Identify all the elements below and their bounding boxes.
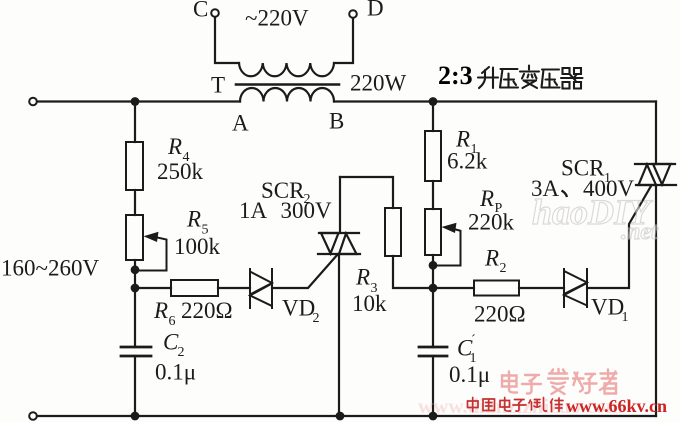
svg-text:160~260V: 160~260V bbox=[1, 256, 99, 281]
svg-text:10k: 10k bbox=[352, 291, 387, 316]
svg-text:R: R bbox=[167, 134, 182, 159]
transformer T core bbox=[236, 83, 339, 86]
svg-text:300V: 300V bbox=[281, 198, 333, 223]
svg-text:~220V: ~220V bbox=[245, 6, 309, 31]
resistor R3 bbox=[385, 208, 401, 256]
diac VD2 bbox=[250, 269, 272, 308]
svg-text:220W: 220W bbox=[350, 70, 407, 95]
thyristor SCR2 bbox=[318, 233, 360, 254]
wire R6-VD2 lead bbox=[218, 287, 250, 289]
CJK shengyabianyaqi text 升压变压器 bbox=[478, 66, 583, 89]
thyristor SCR1 bbox=[635, 164, 676, 185]
svg-text:2:3: 2:3 bbox=[438, 61, 473, 90]
svg-text:C: C bbox=[193, 0, 208, 22]
wire D lead to primary bbox=[334, 18, 353, 63]
node R5 wiper junction bbox=[131, 265, 140, 274]
resistor R5 body bbox=[126, 215, 143, 260]
transformer T primary winding bbox=[239, 63, 334, 76]
node RP wiper junction bbox=[429, 261, 438, 270]
wire R3 top link bbox=[340, 177, 393, 208]
svg-text:R: R bbox=[186, 207, 201, 232]
svg-text:R: R bbox=[484, 245, 499, 270]
svg-text:0.1μ: 0.1μ bbox=[155, 359, 196, 384]
wire R2 left lead bbox=[433, 287, 474, 289]
svg-text:100k: 100k bbox=[174, 234, 221, 259]
wire R5 bottom lead bbox=[134, 260, 136, 288]
wire R4 top lead bbox=[134, 102, 136, 143]
node left gate row junction bbox=[131, 284, 140, 293]
wire VD2 to SCR2 gate bbox=[272, 254, 338, 288]
wire R2-VD1 lead bbox=[519, 287, 564, 289]
svg-text:6.2k: 6.2k bbox=[447, 149, 488, 174]
svg-text:´: ´ bbox=[471, 333, 476, 348]
wire right branch vertical lower bbox=[655, 185, 657, 416]
svg-text:250k: 250k bbox=[157, 159, 204, 184]
watermark CJK pink dianzi aihaozhe 电子爱好者 bbox=[502, 369, 617, 394]
resistor R4 bbox=[126, 142, 143, 190]
svg-text:2: 2 bbox=[500, 261, 507, 276]
diac VD1 bbox=[564, 269, 587, 307]
watermark haoDIY grey bbox=[532, 192, 659, 245]
resistor R1 bbox=[425, 131, 441, 181]
svg-text:D: D bbox=[367, 0, 384, 21]
svg-text:A: A bbox=[232, 110, 249, 135]
wire right branch vertical upper bbox=[655, 102, 657, 165]
wire R4-R5 lead bbox=[134, 190, 136, 215]
resistor R2 bbox=[474, 281, 519, 296]
potentiometer RP body bbox=[425, 209, 441, 255]
wire C2 bottom lead bbox=[134, 356, 136, 416]
terminal C bbox=[211, 9, 219, 17]
svg-text:www.66kv.cn: www.66kv.cn bbox=[566, 396, 667, 416]
svg-text:2: 2 bbox=[178, 345, 185, 360]
svg-text:R: R bbox=[455, 126, 470, 151]
svg-text:0.1μ: 0.1μ bbox=[449, 362, 490, 387]
svg-text:R: R bbox=[153, 298, 168, 323]
node bottom C1 junction bbox=[429, 412, 438, 421]
terminal input bottom bbox=[29, 412, 37, 420]
wire C1 bottom lead bbox=[432, 356, 434, 416]
wire R5 wiper bbox=[135, 237, 167, 271]
svg-text:.net: .net bbox=[621, 219, 659, 245]
wire top rail right bbox=[334, 100, 656, 102]
resistor R6 bbox=[171, 280, 218, 296]
transformer T secondary winding bbox=[240, 88, 334, 102]
wire R6 left lead bbox=[135, 287, 171, 289]
wire bottom rail bbox=[37, 415, 656, 417]
wire top rail left bbox=[37, 100, 240, 102]
svg-text:220k: 220k bbox=[468, 210, 515, 235]
wire R1 top lead bbox=[432, 102, 434, 132]
svg-text:VD: VD bbox=[282, 295, 315, 320]
arrowhead RP wiper bbox=[442, 223, 457, 233]
node SCR2 cathode junction bbox=[336, 412, 345, 421]
wire VD1 to SCR1 gate bbox=[587, 186, 651, 288]
svg-text:6: 6 bbox=[169, 314, 176, 329]
node top-right junction bbox=[429, 97, 438, 106]
terminal input top bbox=[29, 98, 37, 106]
svg-text:220Ω: 220Ω bbox=[474, 301, 526, 326]
wire C1 top lead bbox=[432, 288, 434, 347]
node right gate row junction bbox=[429, 284, 438, 293]
ideographic comma in 3A,400V bbox=[562, 191, 568, 198]
svg-text:T: T bbox=[211, 72, 225, 97]
svg-text:B: B bbox=[329, 108, 344, 133]
svg-text:1A: 1A bbox=[239, 198, 268, 223]
capacitor C1 bbox=[419, 347, 447, 356]
capacitor C2 bbox=[121, 347, 151, 356]
node top-left junction bbox=[131, 97, 140, 106]
wire SCR2 anode top bbox=[339, 177, 341, 233]
wire RP bottom lead bbox=[432, 255, 434, 288]
svg-text:1: 1 bbox=[622, 310, 629, 325]
terminal D bbox=[349, 10, 357, 18]
wire RP wiper bbox=[433, 229, 461, 266]
svg-text:220Ω: 220Ω bbox=[181, 298, 233, 323]
svg-text:R: R bbox=[355, 264, 370, 289]
node bottom left junction bbox=[131, 412, 140, 421]
svg-text:R: R bbox=[479, 186, 494, 211]
wire SCR2 cathode down bbox=[338, 254, 340, 416]
wire R3 bottom lead bbox=[393, 256, 433, 288]
wire C lead to primary bbox=[215, 17, 239, 63]
wire R1-RP lead bbox=[432, 181, 434, 209]
wire C2 top lead bbox=[134, 288, 136, 347]
watermark CJK red zhongguo dianzi zhizuo 中国电子制作 bbox=[468, 398, 564, 412]
svg-text:VD: VD bbox=[591, 294, 624, 319]
arrowhead R5 wiper bbox=[144, 232, 159, 242]
svg-text:2: 2 bbox=[313, 311, 320, 326]
